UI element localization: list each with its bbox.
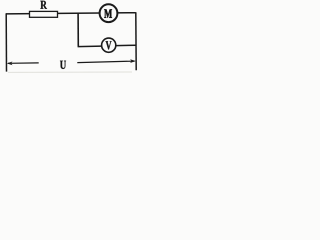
scan smudge bottom (8, 71, 132, 73)
wire left vertical (5, 13, 7, 71)
resistor R (box) (30, 11, 58, 17)
dimension arrow left (7, 62, 13, 66)
wire branch horizontal to voltmeter (78, 45, 102, 48)
dimension line right segment (77, 61, 134, 63)
motor M (circle) (100, 4, 118, 22)
wire top (left corner through R and M to right corner) (6, 13, 136, 14)
dimension line left segment (8, 62, 39, 64)
motor M label (104, 9, 112, 17)
wire branch vertical from top-wire node down (77, 13, 79, 46)
label R (40, 1, 47, 9)
label U (60, 61, 66, 69)
voltmeter V (circle) (102, 38, 116, 52)
wire right vertical (135, 12, 137, 70)
dimension arrow right (130, 59, 136, 63)
wire voltmeter to right vertical (116, 44, 136, 46)
voltmeter V label (106, 41, 112, 49)
